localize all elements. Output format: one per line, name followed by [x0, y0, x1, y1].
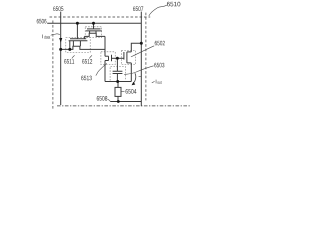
label Iout sub — [157, 81, 161, 84]
EL element 6504 box — [115, 87, 121, 96]
transistor 6512 gate lead — [93, 23, 95, 29]
label 6505 — [53, 6, 63, 11]
dashed unit box around transistor 6502 — [121, 51, 135, 65]
node dot on W1 at 6511 — [68, 48, 71, 51]
Idata arrowhead — [59, 38, 62, 43]
leader 6510 — [149, 5, 167, 16]
capacitor 6503 plates — [113, 71, 123, 73]
label 6503 — [154, 63, 164, 68]
transistor 6511 contacts — [73, 41, 80, 47]
label 6508 — [97, 96, 108, 101]
node dot source node W3 — [116, 80, 119, 83]
node dot 6511 gate on 6506 — [76, 22, 79, 25]
label 6511 — [64, 59, 74, 64]
label 6510 — [167, 2, 180, 7]
transistor 6502 bottom foot — [127, 62, 131, 64]
dashed unit box around transistor 6513 — [101, 52, 115, 65]
transistor 6511 gate bar — [70, 38, 86, 40]
transistor 6502 top foot — [127, 51, 131, 53]
pixel border right dashed — [145, 13, 147, 101]
wire 6512 right lead down V1 — [104, 36, 106, 56]
transistor 6513 channel bar — [108, 56, 110, 60]
node dot on W1 from 6505 — [59, 48, 62, 51]
wire 6512 left lead drop — [83, 36, 85, 38]
label 6512 — [82, 59, 92, 64]
leader tick right of Iout arc — [139, 76, 142, 78]
label Iout I — [155, 80, 158, 84]
label Idata sub — [44, 35, 50, 38]
wire 6506 scan line horizontal — [47, 22, 141, 24]
wire W3 source node — [105, 81, 131, 83]
Iout arc — [134, 73, 136, 82]
pixel border left dashed — [52, 21, 54, 109]
EL element 6504 top lead — [117, 82, 119, 88]
transistor 6512 contacts — [90, 31, 96, 33]
label 6504 — [126, 89, 137, 94]
node dot on 6508 line — [117, 100, 120, 103]
dashed unit box around transistor 6511 — [66, 38, 90, 53]
label 6506 — [37, 19, 47, 24]
wire 6505 signal line vertical — [60, 12, 62, 105]
leader Iout — [152, 81, 155, 82]
transistor 6512 active bar — [86, 30, 102, 32]
transistor 6511 gate lead — [76, 23, 78, 39]
node dot 6512 gate on 6506 — [92, 22, 95, 25]
Iout arrowhead — [132, 82, 136, 85]
leader Idata — [51, 34, 60, 36]
dashed unit box around capacitor 6503 — [110, 67, 125, 81]
label 6507 — [133, 6, 143, 11]
transistor 6513 bottom foot — [105, 60, 109, 62]
transistor 6502 source lead — [130, 63, 132, 82]
transistor 6502 channel bar — [126, 52, 128, 63]
leader 6508 — [108, 99, 111, 101]
leader 6513 — [96, 63, 107, 75]
transistor 6513 gate bar — [111, 55, 113, 61]
wire W2 gate net — [112, 57, 124, 59]
wire tee from 6507 to transistor 6502 drain — [131, 43, 141, 52]
transistor 6511 active bar — [69, 40, 88, 42]
node dot on 6507 tee — [140, 42, 143, 45]
transistor 6512 gate bar — [87, 28, 101, 30]
wire W1 with 6511 channel bridge — [61, 46, 105, 49]
label Idata I — [42, 34, 45, 38]
transistor 6513 top foot — [105, 55, 109, 57]
transistor 6512 channel bridge and leads — [84, 33, 105, 36]
leader dash 6504 — [121, 91, 124, 93]
pixel border top dashed — [50, 16, 151, 18]
capacitor 6503 top lead — [116, 58, 118, 71]
node dot gate net W2 — [116, 57, 119, 60]
wire 6507 power line vertical — [140, 12, 142, 107]
transistor 6502 gate bar — [123, 52, 125, 60]
EL element 6504 bottom lead — [117, 96, 119, 101]
leader 6502 — [131, 46, 154, 57]
leader 6512 — [89, 55, 92, 58]
label 6502 — [155, 41, 165, 46]
leader 6503 — [124, 66, 153, 75]
wire from active bar to node — [69, 41, 71, 50]
pixel border bottom dash-dot — [57, 105, 190, 107]
transistor 6513 source lead — [104, 61, 106, 82]
capacitor 6503 bottom lead — [116, 74, 118, 82]
label 6513 — [81, 76, 92, 81]
wire 6508 cathode line — [110, 101, 141, 103]
dashed unit box around transistor 6512 — [85, 27, 101, 38]
leader 6511 — [72, 55, 75, 58]
